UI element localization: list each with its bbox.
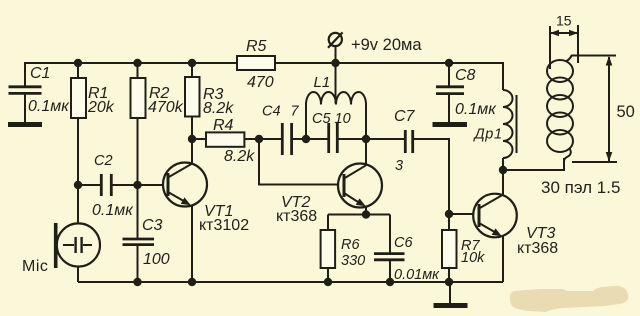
capacitor C3 [123, 217, 170, 268]
wire R2 stem [137, 63, 139, 238]
microphone Mic [22, 185, 100, 282]
svg-text:20k: 20k [87, 99, 115, 116]
resistor R4 [206, 117, 255, 165]
dimension 15 [550, 13, 578, 70]
transistor VT1 [163, 163, 249, 235]
wire R1 stem [77, 63, 79, 185]
svg-text:R5: R5 [246, 38, 267, 55]
capacitor C5 [312, 111, 351, 153]
dimension 50 [571, 56, 635, 163]
capacitor C2 [92, 153, 134, 219]
resistor R1 [71, 78, 115, 118]
node C6 bottom [386, 278, 394, 286]
capacitor C1 [9, 65, 71, 115]
node R4 right [255, 135, 263, 143]
node power [331, 59, 339, 67]
svg-text:C6: C6 [394, 235, 413, 251]
wire top rail [25, 62, 504, 64]
wire choke to collector node [502, 158, 504, 170]
wire VT1 collector [191, 139, 193, 164]
wire C6 drop [389, 215, 391, 254]
ground (under C8) [433, 122, 468, 127]
svg-text:0.1мк: 0.1мк [455, 101, 497, 118]
node C3 bottom [133, 278, 141, 286]
wire C1 drop [24, 62, 26, 86]
wire C8 to ground [448, 94, 450, 123]
node C8 top [445, 59, 453, 67]
wire VT2 collector [365, 139, 367, 165]
ground (main) [434, 303, 468, 308]
svg-text:7: 7 [291, 104, 300, 120]
wire R6 stem [327, 215, 329, 283]
svg-text:8.2k: 8.2k [203, 100, 234, 117]
svg-text:R4: R4 [213, 117, 234, 134]
node choke bottom [499, 166, 507, 174]
capacitor C8 [436, 67, 497, 118]
wire ground stem [449, 282, 451, 303]
wire VT1 emitter [191, 205, 193, 282]
wire C8 drop [448, 63, 450, 86]
wire C6 to rail [389, 260, 391, 282]
node VT2 emitter [362, 210, 370, 218]
power terminal +9v [328, 32, 422, 63]
wire right rail to choke [502, 63, 504, 90]
svg-text:C3: C3 [142, 217, 163, 234]
wire C5 right [338, 138, 367, 140]
svg-text:0.01мк: 0.01мк [394, 267, 440, 283]
node C2 left [74, 181, 82, 189]
svg-text:кт368: кт368 [276, 208, 317, 225]
wire bottom rail [78, 281, 503, 283]
wire C1 to ground [24, 94, 26, 123]
wire VT1 base [112, 184, 164, 186]
wire antenna feed [503, 158, 564, 170]
node R7 bottom [445, 278, 453, 286]
capacitor C4 [262, 104, 300, 156]
antenna coil drawing [547, 56, 573, 162]
wire C4 left [259, 138, 282, 140]
svg-text:C1: C1 [30, 65, 50, 82]
inductor Dr1 choke [473, 90, 517, 158]
svg-text:Mic: Mic [22, 258, 48, 275]
wire C3 to rail [137, 245, 139, 282]
node VT1 emitter bottom [188, 278, 196, 286]
wire R7 stem [448, 214, 450, 282]
wire node to C7 [366, 138, 405, 140]
resistor R2 [131, 78, 184, 118]
node VT3 base [445, 210, 453, 218]
svg-text:C2: C2 [94, 153, 113, 169]
node R6 bottom [324, 278, 332, 286]
svg-text:30 пэл 1.5: 30 пэл 1.5 [541, 178, 620, 197]
capacitor C7 [394, 108, 416, 174]
svg-text:R6: R6 [341, 237, 360, 253]
svg-text:470k: 470k [148, 99, 184, 116]
resistor R3 [185, 77, 234, 117]
wire VT3 emitter [502, 236, 504, 282]
node VT2 collector [362, 135, 370, 143]
wire R4 row [192, 138, 259, 140]
svg-text:Др1: Др1 [473, 127, 503, 143]
wire emitter row [328, 214, 390, 216]
svg-text:C5: C5 [312, 111, 331, 127]
wire VT3 collector [502, 170, 504, 195]
resistor R6 [321, 230, 366, 269]
node R2 top [133, 59, 141, 67]
svg-text:кт368: кт368 [517, 240, 558, 257]
wire C7 to VT3 base [413, 139, 474, 214]
svg-text:+9v 20ма: +9v 20ма [351, 36, 422, 54]
svg-text:10k: 10k [461, 250, 485, 266]
wire VT2 base drop [259, 139, 339, 185]
wire R3 stem [191, 63, 193, 139]
erased watermark smudge [510, 286, 628, 312]
svg-text:3: 3 [395, 158, 403, 174]
svg-text:15: 15 [556, 13, 572, 29]
resistor R5 [237, 38, 275, 91]
svg-text:0.1мк: 0.1мк [92, 202, 134, 219]
node C2 right [133, 181, 141, 189]
svg-text:100: 100 [143, 251, 170, 268]
svg-text:кт3102: кт3102 [199, 217, 249, 234]
svg-text:10: 10 [335, 111, 351, 127]
capacitor C6 [374, 235, 440, 283]
node R1 top [74, 59, 82, 67]
wire C2 row [78, 184, 100, 186]
node R3 top [188, 59, 196, 67]
svg-text:8.2k: 8.2k [224, 148, 255, 165]
wire C4 to C5 [292, 138, 328, 140]
wire VT2 emitter [365, 206, 367, 215]
svg-text:L1: L1 [314, 74, 331, 91]
svg-text:330: 330 [341, 253, 365, 269]
transistor VT2 [276, 164, 382, 226]
resistor R7 [442, 230, 485, 268]
svg-text:C4: C4 [262, 104, 281, 120]
svg-text:0.1мк: 0.1мк [28, 98, 70, 115]
svg-text:C8: C8 [455, 67, 476, 84]
svg-text:470: 470 [247, 74, 274, 91]
transistor VT3 [473, 194, 558, 257]
inductor L1 [306, 63, 366, 139]
node R3 bottom [188, 135, 196, 143]
node C4-C5 [302, 135, 310, 143]
svg-text:50: 50 [617, 103, 635, 121]
svg-text:C7: C7 [394, 108, 416, 125]
ground (under C1) [8, 122, 42, 127]
